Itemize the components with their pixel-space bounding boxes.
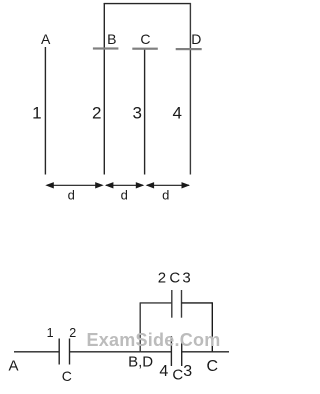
plate C (3) xyxy=(144,49,146,175)
label node C xyxy=(207,359,219,375)
label plate D xyxy=(191,32,201,46)
plate B (2) xyxy=(103,3,105,175)
wire riser from top branch down to node C xyxy=(211,302,213,352)
wire riser from node B,D up to top branch xyxy=(139,303,141,352)
label plate A xyxy=(41,32,50,46)
wire top connecting plates B and D xyxy=(104,3,191,5)
wire top branch left to capacitor C(2-3) xyxy=(140,302,172,304)
label node B,D xyxy=(128,354,153,369)
capacitor C3 (plates 4,3) left plate xyxy=(170,336,172,366)
label plate number 4 xyxy=(172,105,181,122)
label distance d (B-C) xyxy=(121,189,128,202)
wire from capacitor C(3-4) to node C and right edge xyxy=(182,351,229,353)
capacitor C1 (plates 1,2) left plate xyxy=(58,339,60,365)
wire top branch right from capacitor C(2-3) xyxy=(182,302,213,304)
label value C of C2 xyxy=(169,270,180,285)
plate D (4) xyxy=(189,3,191,175)
capacitor C2 (plates 2,3) left plate xyxy=(171,290,173,318)
watermark ExamSide.Com xyxy=(87,331,221,349)
label pin 3 of C2 xyxy=(182,270,190,285)
label plate number 2 xyxy=(92,104,101,121)
terminal bar B xyxy=(93,47,119,49)
label pin 3 of C3 xyxy=(183,364,192,380)
label plate B xyxy=(107,32,116,46)
label distance d (C-D) xyxy=(162,189,169,202)
label node A xyxy=(8,358,18,373)
label value C of C1 xyxy=(62,369,72,383)
label pin 2 of C2 xyxy=(158,270,166,285)
label pin 1 of C1 xyxy=(47,327,54,340)
label value C of C3 xyxy=(172,368,183,383)
label plate number 3 xyxy=(132,105,141,122)
label plate number 1 xyxy=(32,104,41,121)
dimension arrow d between B and C xyxy=(105,182,144,188)
wire from node A to capacitor C(1-2) xyxy=(14,351,59,353)
wire from node B,D to capacitor C(3-4) xyxy=(140,351,171,353)
wire from capacitor C(1-2) to node B,D xyxy=(70,351,141,353)
label pin 4 of C3 xyxy=(159,364,168,380)
label pin 2 of C1 xyxy=(69,327,76,340)
capacitor C2 (plates 2,3) right plate xyxy=(181,290,183,318)
label distance d (A-B) xyxy=(68,189,75,202)
dimension arrow d between A and B xyxy=(45,182,103,188)
plate A (1) xyxy=(44,47,46,175)
label plate C xyxy=(140,32,150,46)
terminal bar D xyxy=(176,48,202,50)
terminal bar C xyxy=(132,48,158,50)
capacitor C3 (plates 4,3) right plate xyxy=(181,336,183,366)
capacitor C1 (plates 1,2) right plate xyxy=(69,339,71,365)
dimension arrow d between C and D xyxy=(146,182,190,188)
